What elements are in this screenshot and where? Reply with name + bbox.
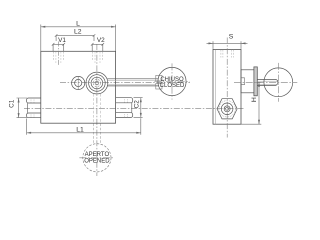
svg-text:OPENED: OPENED — [84, 158, 110, 164]
side port C2 thread marks — [125, 99, 128, 117]
adjusting screw small concentric circles — [72, 76, 85, 89]
svg-text:CHIUSO: CHIUSO — [160, 77, 184, 83]
dimension S arrowheads — [209, 42, 246, 44]
hex plug thread circle — [219, 101, 235, 117]
dimension C1 extension ticks — [17, 98, 28, 118]
svg-text:L2: L2 — [74, 29, 82, 36]
stem shaft with rounded cap — [257, 79, 278, 85]
lever rod inner lines — [108, 81, 156, 85]
dimension H extension line bottom — [241, 123, 261, 125]
dimension C2 arrowheads — [140, 98, 142, 118]
dimension L2 oblique ticks — [55, 34, 95, 37]
side view inner left edge — [214, 49, 216, 124]
dimension C2 extension ticks — [134, 98, 143, 118]
knob side view axis centerline — [234, 81, 297, 83]
dimension L2 line — [56, 34, 94, 36]
vertical main centerline front view — [96, 44, 98, 176]
stem shaft inner cap — [258, 81, 278, 84]
port V2 stub lines — [92, 44, 103, 51]
side port C2 fitting lower band — [116, 113, 133, 118]
dimension L extension lines — [41, 25, 116, 52]
dimension C1 line — [18, 98, 20, 118]
dimension L1 arrowheads — [27, 132, 141, 134]
rod axis centerline front view — [60, 81, 190, 83]
side view body outline — [213, 49, 241, 124]
port V1 hidden thread lines — [53, 52, 63, 60]
knob circle side view — [264, 68, 293, 97]
svg-text:H: H — [251, 97, 258, 102]
main valve boss concentric circles — [86, 72, 108, 94]
dimension L line — [41, 26, 116, 28]
stem hidden lines below body — [93, 124, 100, 145]
knob crosshair vertical — [171, 63, 173, 99]
knob side view crosshair vertical — [277, 63, 279, 102]
stem bushing — [241, 70, 255, 93]
side port C1 fitting lower band — [27, 113, 41, 118]
dimension H line — [258, 82, 260, 124]
svg-text:V1: V1 — [58, 37, 66, 44]
dimension L1 line — [27, 132, 141, 134]
port V1 centerline — [57, 42, 59, 67]
knob circle CHIUSO/CLOSED — [158, 67, 186, 95]
dimension L2 extension stubs — [56, 35, 94, 41]
dimension S line — [207, 42, 248, 44]
svg-text:CLOSED: CLOSED — [160, 83, 185, 89]
dimension H arrowheads — [258, 82, 260, 124]
svg-text:L1: L1 — [76, 127, 84, 134]
dimension L1 extension lines — [27, 118, 141, 135]
port V1 stub lines — [53, 44, 64, 51]
svg-text:S: S — [229, 33, 234, 40]
hex plug head-on — [217, 99, 237, 119]
stem flange — [254, 67, 257, 96]
stem hidden lines inside body — [93, 94, 100, 123]
lever hub at knob — [156, 75, 162, 81]
port V1 size dimension line with ticks — [53, 43, 64, 45]
side port C2 fitting upper band — [116, 98, 133, 103]
svg-text:C1: C1 — [8, 99, 15, 108]
dimension C1 arrowheads — [18, 98, 20, 118]
valve body front view outline — [41, 51, 116, 123]
port V2 size dimension line with ticks — [92, 43, 103, 45]
svg-text:L: L — [76, 21, 80, 28]
side port C1 fitting upper band — [27, 98, 41, 103]
knob crosshair horizontal — [154, 81, 189, 83]
svg-text:APERTO: APERTO — [85, 152, 110, 158]
dimension S extension lines — [213, 41, 241, 49]
side port C2 neck edge — [131, 103, 133, 113]
open knob crosshair horizontal — [79, 157, 114, 159]
lever rod outer lines — [107, 79, 158, 86]
side view vertical centerline — [226, 38, 228, 138]
side view mounting thread hidden lines — [221, 50, 233, 58]
knob open position circle APERTO/OPENED (phantom) — [83, 144, 111, 172]
side port C1 thread marks — [31, 100, 34, 118]
bushing inner step — [241, 78, 245, 85]
port V2 hidden thread lines — [93, 52, 103, 60]
svg-text:C2: C2 — [134, 100, 141, 109]
dimension L arrowheads — [41, 26, 116, 28]
side port C1 neck edge — [27, 103, 29, 113]
main horizontal centerline through side ports — [24, 108, 244, 110]
hex plug circles — [221, 103, 233, 115]
dimension C2 line — [140, 98, 142, 118]
dimension H tick at axis — [256, 81, 261, 83]
